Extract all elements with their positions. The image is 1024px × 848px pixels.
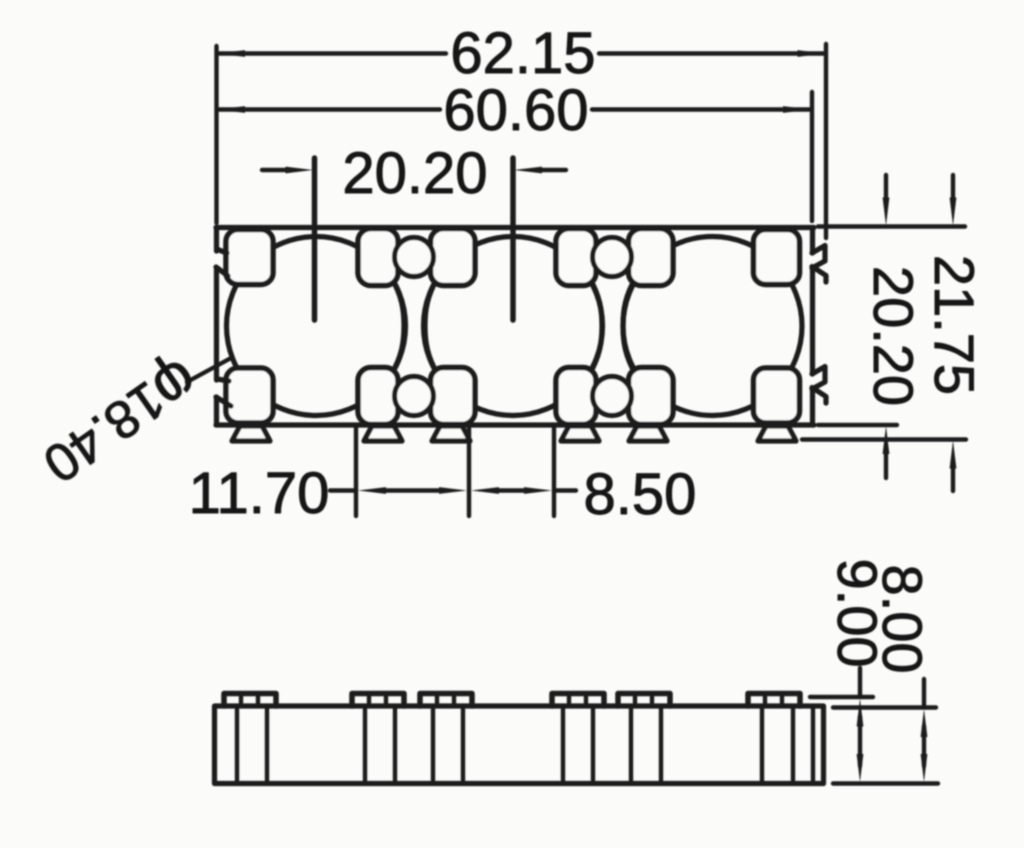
dim 62.15 left extension line (214, 46, 218, 223)
side tab 5 (618, 694, 670, 707)
center line cell 1 (312, 158, 318, 320)
cell circle 2 (424, 237, 603, 416)
dim 8.00 line and arrows (922, 679, 926, 766)
cell circle 3 (623, 237, 802, 416)
corner post bottom-right (754, 368, 800, 423)
foot 5 (629, 426, 667, 441)
dim 21.75 bottom arrow (951, 466, 955, 491)
dim 21.75 bottom tick (802, 437, 966, 441)
dim 11.70/8.50 extension line b (467, 427, 471, 516)
post top mid-left B (431, 229, 476, 286)
side tab 2 (352, 694, 404, 707)
foot 1 (232, 426, 270, 441)
right tab 1 (812, 246, 826, 283)
dim 60.60 right arrow (783, 106, 811, 113)
dim 60.60 right extension line (810, 92, 814, 221)
post top mid-left A (358, 229, 398, 286)
boss circle bottom 1 (395, 377, 434, 416)
dim 60.60 left arrow (217, 106, 245, 113)
dim 62.15 right arrow (798, 50, 826, 57)
dim 9.00 line and arrows (858, 668, 862, 766)
right tab 2 (812, 367, 826, 404)
foot 4 (561, 426, 599, 441)
dim 9.00 top tick (810, 695, 873, 699)
svg-text:8.50: 8.50 (584, 462, 697, 527)
neck web between cells 2-3 (589, 277, 636, 375)
svg-text:62.15: 62.15 (450, 21, 595, 86)
neck web between cells 1-2 (391, 277, 438, 375)
dim 8.50 line and arrows (494, 488, 576, 492)
side rib lines (237, 706, 813, 783)
leader line for diameter (187, 358, 231, 382)
dim 62.15 left arrow (217, 50, 245, 57)
dim 62.15 line (218, 51, 824, 55)
dim 21.75 top arrow (951, 175, 955, 202)
dim 20.20 left arrow with tail (262, 168, 292, 172)
side tab 4 (552, 694, 604, 707)
svg-text:60.60: 60.60 (443, 78, 588, 143)
post bottom mid-right A (556, 368, 596, 425)
post top mid-right A (556, 229, 596, 286)
post bottom mid-left A (358, 368, 398, 425)
svg-text:20.20: 20.20 (342, 141, 487, 206)
dim 8.50 extension line c (552, 427, 556, 516)
foot 2 (364, 426, 402, 441)
dim 60.60 line (218, 107, 810, 111)
post bottom mid-left B (431, 368, 476, 425)
corner post bottom-left (226, 368, 273, 423)
cell circle 1 (227, 237, 406, 416)
svg-text:11.70: 11.70 (189, 461, 330, 526)
svg-text:8.00: 8.00 (871, 565, 934, 674)
corner post top-left (226, 230, 273, 285)
body left edge (214, 228, 219, 426)
dim 11.70 line and arrows (330, 488, 445, 492)
dim 20.20v top arrow (884, 175, 888, 202)
side tab 6 (748, 694, 800, 707)
dim 20.20v bottom arrow (884, 452, 888, 478)
left notch 1 (216, 249, 228, 276)
post top mid-right B (629, 229, 674, 286)
svg-text:21.75: 21.75 (923, 255, 986, 395)
foot 3 (432, 426, 470, 441)
body right edge (810, 228, 815, 426)
dim 11.70 extension line a (354, 427, 358, 516)
dim 8.00 top tick (833, 705, 936, 709)
dim 62.15 right extension line (824, 44, 828, 238)
boss circle top 2 (593, 238, 632, 277)
boss circle bottom 2 (593, 377, 632, 416)
side bottom tick (833, 781, 938, 785)
corner post top-right (754, 230, 800, 285)
post bottom mid-right B (629, 368, 674, 425)
side tab 3 (420, 694, 472, 707)
dim 20.20 right arrow with tail (536, 168, 566, 172)
left notch 2 (216, 379, 231, 406)
side view body outline (215, 706, 824, 784)
dim 20.20v bottom tick (818, 423, 897, 427)
body bottom edge (216, 422, 814, 427)
boss circle top 1 (395, 238, 434, 277)
center line cell 2 (510, 158, 516, 320)
foot 6 (758, 426, 796, 441)
svg-text:20.20: 20.20 (862, 266, 925, 406)
side tab 1 (224, 694, 276, 707)
body top edge (216, 225, 814, 230)
right dims top tick (818, 224, 965, 228)
